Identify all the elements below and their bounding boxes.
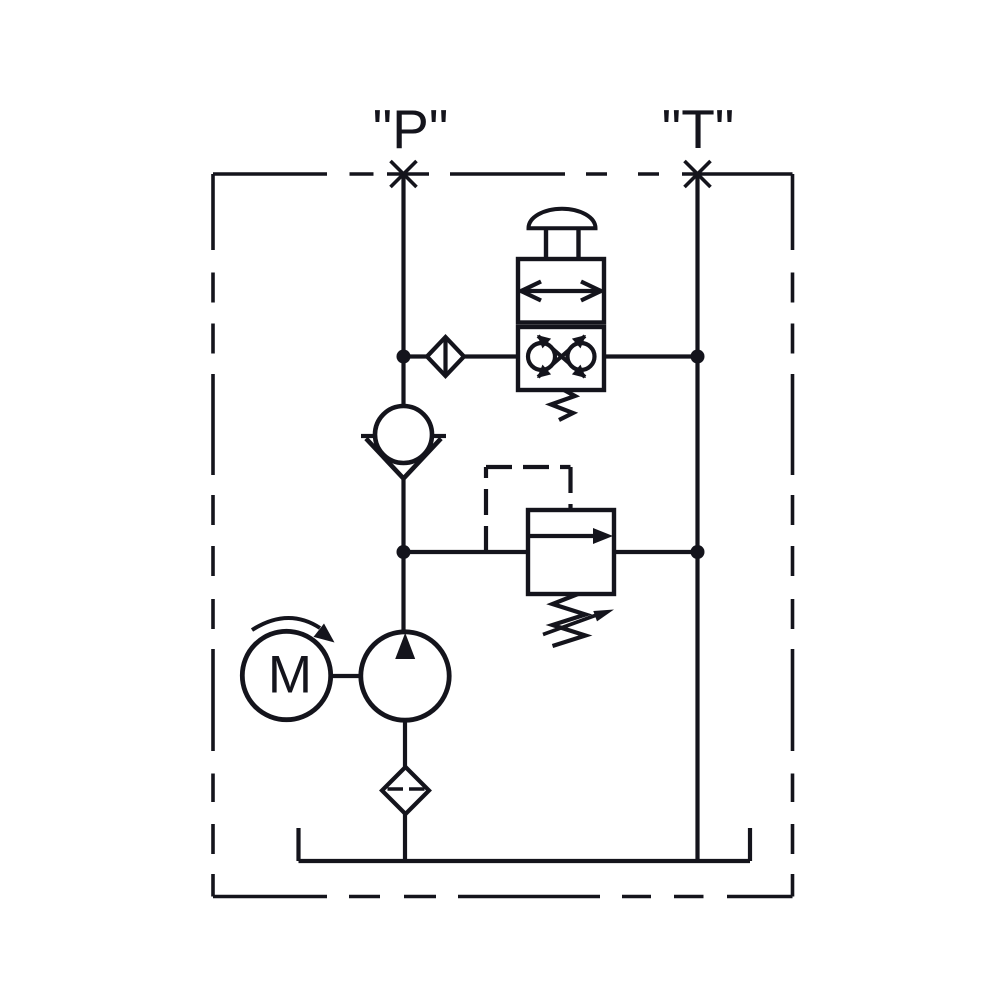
- svg-text:M: M: [268, 646, 312, 705]
- svg-text:"P": "P": [373, 98, 449, 160]
- svg-text:"T": "T": [662, 98, 735, 160]
